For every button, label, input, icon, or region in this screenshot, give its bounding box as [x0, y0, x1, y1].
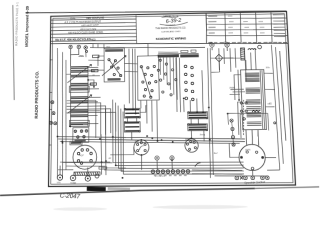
- svg-text:6Q7: 6Q7: [79, 155, 84, 157]
- bottom-left horizontals: [58, 162, 112, 170]
- svg-text:SCHEMATIC WIRING: SCHEMATIC WIRING: [156, 36, 187, 41]
- band switch wafer B: [137, 56, 159, 101]
- antenna lead: [80, 49, 86, 57]
- paper top edge: [25, 7, 286, 16]
- svg-text:THE RADIO PRODUCTS CO.: THE RADIO PRODUCTS CO.: [155, 27, 186, 31]
- top band rules (left legend): [51, 18, 136, 20]
- table cell marks: [228, 16, 233, 17]
- band switch wafer A: [104, 48, 125, 82]
- scattered switch contacts: [159, 59, 161, 61]
- vertical pair center-right: [207, 48, 215, 178]
- title block text: [162, 16, 179, 18]
- small resistor boxes left of wafer A: [92, 55, 98, 57]
- svg-text:GEN COUPLING: GEN COUPLING: [86, 18, 104, 20]
- IF1 connects: [124, 104, 146, 140]
- drops to output tube: [246, 130, 259, 146]
- volume / tone pots: [57, 175, 62, 180]
- svg-text:TONE: TONE: [70, 183, 77, 185]
- wires wafer A to B: [98, 55, 138, 72]
- label above socket: [70, 141, 82, 145]
- vertical resistor: [240, 48, 244, 60]
- right side supply wires: [271, 45, 279, 170]
- value text cluster right of IF2: [230, 89, 243, 90]
- svg-text:8mf: 8mf: [214, 153, 218, 155]
- output shield box partial: [228, 113, 269, 131]
- svg-text:6K7: 6K7: [224, 42, 228, 44]
- svg-text:400: 400: [91, 37, 96, 41]
- small choke top right: [248, 49, 256, 50]
- terminal column right of IF2: [230, 119, 233, 122]
- drops from label bars: [159, 58, 161, 75]
- top horizontal wire: [90, 46, 205, 50]
- page fold line left: [11, 5, 17, 100]
- left frame tick marks: [49, 60, 53, 145]
- tube socket (1st AF) big left: [73, 145, 97, 169]
- svg-text:Speaker Socket: Speaker Socket: [244, 180, 265, 185]
- resistor bar: [74, 172, 100, 176]
- bottom smudges: [53, 207, 107, 211]
- diagonal gang condenser arrow: [102, 56, 126, 76]
- paper bottom edge: [0, 188, 255, 195]
- tuning arrows across coils: [67, 65, 91, 83]
- small 4th terminal: [85, 50, 87, 52]
- left vertical wires: [56, 48, 59, 177]
- svg-text:No 6 I.F. 456 KILOCYCLES: No 6 I.F. 456 KILOCYCLES: [55, 37, 91, 42]
- tube socket bottom right (rect/output): [239, 144, 266, 170]
- right lower connects: [229, 143, 280, 176]
- table row label marks: [208, 16, 217, 17]
- svg-text:RADIO PRODUCTS PAGE 3-1: RADIO PRODUCTS PAGE 3-1: [14, 2, 19, 46]
- svg-text:OSC: OSC: [106, 47, 111, 49]
- pot lead verticals: [60, 109, 106, 176]
- extra vertical wires under table: [219, 48, 236, 72]
- zigzag resistor near transformer: [252, 110, 260, 112]
- svg-text:6A8: 6A8: [208, 41, 212, 44]
- two pilot terminals: [155, 156, 159, 160]
- transformer leads left: [234, 75, 243, 138]
- trimmer/padder box: [73, 128, 89, 143]
- tube socket right-center (det): [185, 139, 199, 152]
- svg-text:MODEL Improved 6-39: MODEL Improved 6-39: [25, 6, 30, 47]
- bottom right horizontals: [192, 169, 268, 176]
- nested bus corners: [113, 98, 244, 163]
- voltage table: [206, 14, 207, 43]
- svg-text:VOL: VOL: [57, 182, 61, 184]
- bracket near speaker wiring: [195, 163, 201, 167]
- ground binding posts: [51, 101, 54, 104]
- coil side rails: [69, 66, 72, 126]
- detector verticals: [211, 58, 247, 101]
- mid horizontals: [66, 60, 104, 87]
- svg-text:DIAL: DIAL: [70, 17, 76, 20]
- right-half horizontals: [210, 48, 275, 107]
- svg-text:.02: .02: [108, 158, 112, 160]
- svg-text:2meg: 2meg: [199, 134, 206, 136]
- svg-text:two bands: two bands: [166, 23, 176, 26]
- chassis terminal strip: [151, 170, 154, 173]
- switch contact ladder: [184, 65, 187, 68]
- title block divider: [135, 15, 138, 43]
- junction dots: [122, 177, 124, 179]
- black redaction block: [87, 187, 106, 192]
- verticals from ladder down: [183, 70, 203, 112]
- top band bottom separator: [51, 39, 288, 47]
- svg-text:CLEVELAND OHIO: CLEVELAND OHIO: [161, 30, 181, 33]
- detector diode chain: [242, 100, 245, 135]
- tube socket center (IF amp): [134, 140, 149, 155]
- svg-text:RADIO PRODUCTS CO.: RADIO PRODUCTS CO.: [34, 71, 40, 119]
- IF transformer T2 primary: [188, 112, 208, 119]
- IF transformer T2 secondary: [188, 124, 208, 131]
- svg-text:ANT: ANT: [79, 55, 84, 58]
- schematic frame outer: [48, 11, 295, 186]
- IF2 verticals down: [191, 119, 204, 142]
- wires near wafer B: [129, 49, 136, 114]
- staircase mesh: [66, 100, 95, 138]
- extra bottom-left horizontals: [60, 162, 126, 171]
- antenna trio terminals: [69, 45, 72, 48]
- verticals center field: [140, 58, 181, 141]
- svg-text:110v: 110v: [266, 67, 271, 69]
- svg-text:.1: .1: [146, 105, 148, 107]
- grey stamp text: [108, 187, 130, 190]
- long AVC/B+ buses: [58, 135, 245, 141]
- svg-text:250M: 250M: [229, 87, 235, 89]
- schematic frame inner: [51, 14, 293, 184]
- svg-text:600 KILOCYCLES GANG COND.: 600 KILOCYCLES GANG COND.: [68, 31, 104, 35]
- strip labels dark ticks: [154, 175, 157, 176]
- diamond (phase splitter): [215, 54, 223, 62]
- svg-text:+45: +45: [267, 103, 272, 106]
- bottom small bits: [95, 174, 99, 178]
- lower mid connects: [110, 147, 172, 170]
- svg-text:alignment data: alignment data: [80, 28, 97, 31]
- speaker socket terminals: [235, 176, 239, 180]
- coil label bars: [158, 54, 179, 57]
- IF transformer T1 secondary: [124, 122, 140, 132]
- IF transformer T1 primary: [124, 108, 140, 118]
- coil shield boxes: [69, 86, 89, 92]
- RF/antenna coil windings (left column): [71, 66, 88, 69]
- svg-text:C-2047: C-2047: [59, 193, 80, 201]
- grid cap connections: [210, 43, 214, 47]
- power transformer: [241, 70, 267, 130]
